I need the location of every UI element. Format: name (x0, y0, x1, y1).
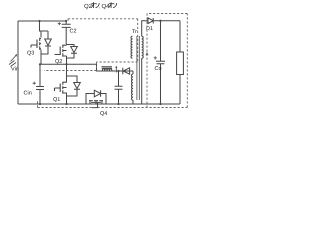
dashed mid segment right (97, 61, 138, 63)
diode (Q2 body) (67, 45, 78, 59)
dashed top segment (68, 19, 138, 21)
wire: left input vertical (17, 21, 19, 104)
transformer Tr upper-left winding (131, 36, 133, 58)
node A junction dots (39, 63, 41, 65)
transistor Q4 (horizontal on rail) (89, 101, 103, 108)
node: Cr junction (117, 70, 119, 72)
transistor Q2 (55, 45, 67, 57)
wire: Q3 drain (40, 21, 49, 38)
diode (series, pointing left) (123, 68, 130, 75)
katakana オ (1) (91, 2, 95, 8)
capacitor C2 (62, 21, 71, 44)
dashed descent right (137, 19, 139, 62)
inductor Lr (102, 67, 113, 68)
wire: top rail (18, 20, 66, 22)
wire: secondary bottom down (141, 58, 143, 104)
svg-text:Co: Co (155, 66, 162, 72)
label Vin (11, 66, 19, 72)
label Q3 (27, 51, 34, 57)
wire: to primary (132, 71, 134, 74)
katakana ン (1) (96, 3, 100, 8)
capacitor Cr (115, 71, 123, 104)
transistor Q1 (55, 82, 67, 94)
svg-text:Vin: Vin (11, 66, 19, 72)
dashed secondary left (146, 14, 148, 108)
dashed secondary top (147, 13, 187, 15)
svg-text:Cin: Cin (24, 91, 32, 97)
transistor Q3 (31, 38, 41, 50)
svg-text:Q3: Q3 (27, 51, 34, 57)
dashed step (96, 62, 98, 71)
dashed current path: primary loop (38, 14, 188, 108)
svg-text:Q4: Q4 (100, 111, 107, 117)
dashed right edge (186, 14, 188, 108)
capacitor Cin (36, 64, 44, 104)
svg-text:C2: C2 (70, 29, 77, 35)
junction dots bottom rail (39, 103, 41, 105)
label D1 (146, 26, 153, 32)
title Q2オン, Q4オン (84, 2, 117, 10)
wire: Q3 source down to node A (40, 50, 42, 65)
arrow on secondary dashed left (up) (146, 52, 149, 55)
wire: Q1 source (66, 93, 68, 105)
label Q1 (53, 97, 60, 103)
load resistor (179, 21, 181, 52)
input arrow (11, 55, 17, 62)
diode (Q3 body) (41, 31, 51, 54)
wire: Q2 drain/source stubs (66, 44, 68, 64)
label Q4 (100, 111, 107, 117)
dashed mid segment left (44, 70, 97, 72)
transformer core (137, 36, 139, 100)
wire: secondary top to D1 (142, 21, 148, 37)
diode D1 (148, 18, 153, 24)
node: rail end / C2 top (65, 20, 67, 22)
transformer secondary winding (142, 36, 144, 58)
capacitor Co (156, 21, 165, 104)
current arrow (up) at Cr node (115, 68, 117, 73)
dashed bottom left corner up (37, 101, 39, 108)
transformer Tr primary lower winding (131, 74, 133, 100)
svg-text:Q1: Q1 (53, 97, 60, 103)
diode (Q1 body) (67, 76, 81, 96)
wire: bottom rail (18, 103, 180, 105)
node: rail junction for Q3 (38, 20, 40, 22)
wire: node A horizontal (40, 64, 133, 71)
wire: D1 cathode to output top (153, 20, 180, 22)
label Tr (132, 29, 137, 35)
wire: Q1 drain (66, 64, 68, 82)
katakana ン (2) (113, 3, 117, 8)
dashed bottom line (38, 107, 188, 109)
svg-text:Tr: Tr (132, 29, 137, 35)
katakana オ (2) (109, 2, 113, 8)
input break ticks (9, 61, 16, 67)
label Q2 (55, 59, 62, 65)
node: output top junction (159, 20, 161, 22)
diode (Q4 body) (86, 90, 106, 104)
